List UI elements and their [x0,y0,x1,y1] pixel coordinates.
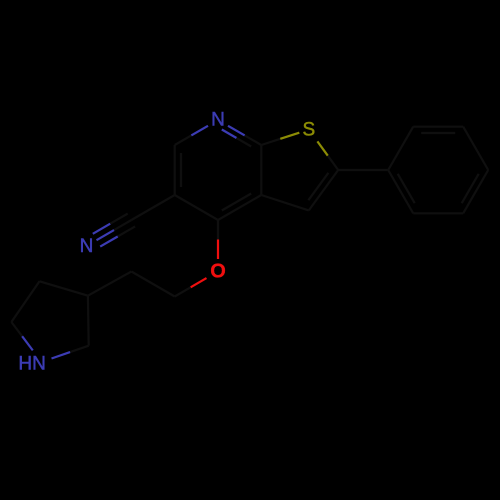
bond C2=C3 [308,170,338,210]
bond C3p-C2p [87,296,90,346]
phenyl e3 [463,127,488,170]
triple C#N [93,214,135,247]
svg-text:S: S [302,120,315,141]
bond CH2-C3p [88,272,131,296]
bond C4=C3a [218,194,261,221]
bond C7a-S1 [261,133,299,145]
phenyl e1 [388,127,413,170]
bond C6=C5 [175,145,181,195]
bond N1p-C5p [11,322,32,350]
bond C2-ipso [338,169,388,171]
bond N7=C7a [222,126,261,147]
phenyl e6 [388,170,415,213]
bond C3a-C7a [260,145,262,195]
bond CH2-CH2 [131,272,174,297]
phenyl e2 [413,127,463,133]
bond N7-C6 [175,126,208,145]
bond C2p-N1p [52,346,89,359]
phenyl e4 [462,170,489,213]
bond C5p-C4p [11,281,39,322]
svg-text:H: H [18,353,32,374]
bond C5-CN [131,195,174,220]
bond S1-C2 [317,141,338,170]
svg-text:O: O [210,261,226,283]
svg-text:N: N [80,236,94,257]
bond C3-C3a [261,195,309,210]
bond C5-C4 [175,195,218,220]
phenyl e5 [413,212,463,214]
svg-text:N: N [32,353,46,374]
bond C4-O [217,220,219,259]
bond O-CH2 [175,278,207,296]
svg-text:N: N [211,109,225,130]
bond C4p-C3p [40,281,88,295]
